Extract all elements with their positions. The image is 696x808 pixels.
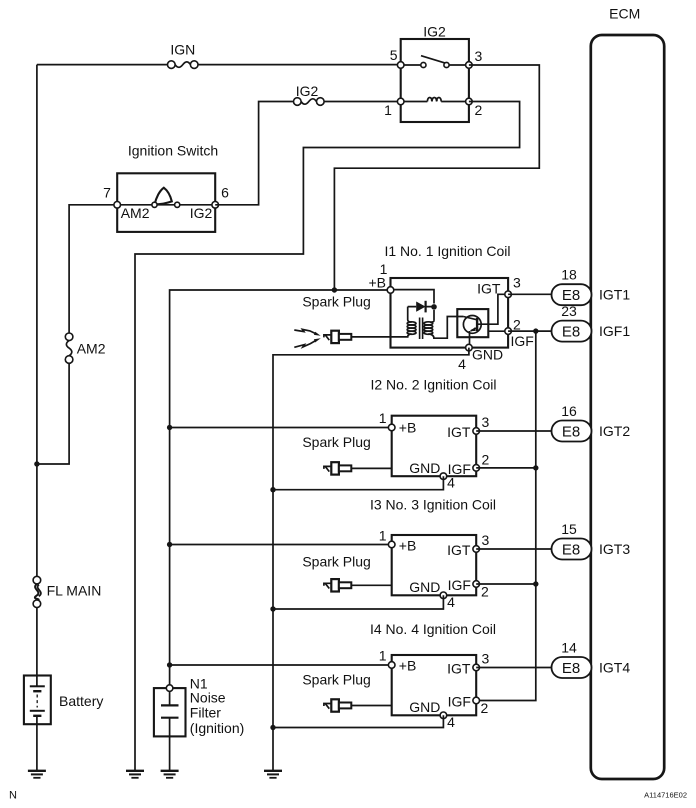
svg-text:IGT: IGT (477, 281, 501, 297)
coil1 pin labels (368, 261, 533, 372)
svg-text:IGN: IGN (170, 42, 195, 58)
node GND3 junction (270, 606, 275, 611)
wire IGT3 to ECM (476, 548, 551, 550)
svg-text:Ignition Switch: Ignition Switch (128, 143, 218, 159)
svg-text:+B: +B (399, 420, 417, 436)
wire IGT4 to ECM (476, 667, 551, 669)
svg-text:IG2: IG2 (296, 83, 319, 99)
wire GND2 (273, 476, 443, 490)
node GND2 junction (270, 487, 275, 492)
fuse IGN (168, 42, 199, 69)
connector E8 pin 23 IGF1 (552, 303, 631, 342)
svg-text:IGT: IGT (447, 661, 471, 677)
svg-text:IGF1: IGF1 (599, 323, 630, 339)
wire IGF1 to ECM (508, 330, 551, 332)
spark plug 1 (294, 294, 390, 348)
ignition coil I1 (384, 243, 510, 348)
node IGF2 junction (533, 465, 538, 470)
svg-text:23: 23 (561, 303, 577, 319)
diode D1 (408, 301, 432, 313)
svg-text:IG2: IG2 (423, 24, 446, 40)
svg-text:I2 No. 2 Ignition Coil: I2 No. 2 Ignition Coil (370, 377, 496, 393)
svg-text:IGT: IGT (447, 424, 471, 440)
svg-text:IGT4: IGT4 (599, 660, 630, 676)
spark plug 2 (302, 434, 391, 475)
svg-text:AM2: AM2 (121, 205, 150, 221)
svg-text:IGT: IGT (447, 542, 471, 558)
connector E8 pin 14 IGT4 (552, 639, 631, 678)
svg-text:IGT3: IGT3 (599, 541, 630, 557)
relay IG2 (384, 24, 482, 123)
ignition coil I2 (370, 377, 496, 491)
svg-text:I4 No. 4 Ignition Coil: I4 No. 4 Ignition Coil (370, 621, 496, 637)
wire GND3 (273, 595, 443, 609)
svg-text:IGF: IGF (448, 694, 471, 710)
svg-text:I1 No. 1 Ignition Coil: I1 No. 1 Ignition Coil (384, 243, 510, 259)
wire AM2 branch (37, 205, 117, 464)
svg-text:15: 15 (561, 521, 577, 537)
svg-text:+B: +B (399, 538, 417, 554)
svg-text:Filter: Filter (190, 705, 221, 721)
node battery/AM2 junction (34, 461, 39, 466)
ignition coil I3 (370, 497, 496, 610)
svg-text:3: 3 (482, 532, 490, 548)
spark plug 4 (302, 672, 391, 712)
ground battery (28, 771, 46, 778)
svg-text:FL MAIN: FL MAIN (47, 583, 102, 599)
wire left battery vertical (36, 65, 38, 676)
wire IGF2 (476, 467, 536, 469)
wire IGF common vertical (476, 331, 536, 700)
wire relay pin3 to +B rail (334, 65, 539, 290)
svg-text:1: 1 (384, 102, 392, 118)
svg-text:5: 5 (390, 47, 398, 63)
wire IGF3 (476, 583, 536, 585)
wire +B rail row3 (170, 544, 392, 546)
ignition switch SW (103, 143, 229, 232)
coil1 pin terminals (387, 287, 511, 351)
node rail row3 (167, 542, 172, 547)
battery (24, 676, 103, 725)
svg-text:3: 3 (482, 414, 490, 430)
svg-text:A114716E02: A114716E02 (644, 791, 687, 800)
svg-text:E8: E8 (562, 541, 580, 558)
svg-text:AM2: AM2 (77, 341, 106, 357)
ground relay coil (126, 771, 144, 778)
svg-text:4: 4 (458, 356, 466, 372)
svg-text:GND: GND (409, 460, 440, 476)
node GND4 junction (270, 725, 275, 730)
svg-text:6: 6 (221, 185, 229, 201)
svg-text:E8: E8 (562, 423, 580, 440)
transistor igniter Q1 (457, 294, 508, 347)
connector E8 pin 16 IGT2 (552, 403, 631, 442)
svg-text:GND: GND (409, 579, 440, 595)
wire IGT1 to ECM (508, 293, 551, 295)
ground noise filter (161, 771, 179, 778)
svg-text:1: 1 (379, 648, 387, 664)
svg-text:18: 18 (561, 267, 577, 283)
wire relay pin2 to ground (135, 102, 520, 771)
svg-text:+B: +B (399, 658, 417, 674)
svg-text:4: 4 (447, 714, 455, 730)
svg-text:16: 16 (561, 403, 577, 419)
svg-text:IGT1: IGT1 (599, 287, 630, 303)
transformer T1 (391, 307, 464, 339)
ECM box (591, 6, 664, 780)
svg-text:2: 2 (475, 102, 483, 118)
svg-text:3: 3 (513, 275, 521, 291)
svg-text:IG2: IG2 (190, 205, 213, 221)
svg-text:ECM: ECM (609, 6, 640, 22)
fuse IG2 (294, 83, 325, 105)
wire GND4 (273, 715, 443, 727)
wire +B rail row4 (170, 664, 392, 666)
node IGF3 junction (533, 581, 538, 586)
wire IGT2 to ECM (476, 430, 551, 432)
wire battery feed top (IGN line) (37, 64, 401, 66)
node rail row2 (167, 425, 172, 430)
svg-text:7: 7 (103, 185, 111, 201)
svg-text:2: 2 (481, 584, 489, 600)
wire switch pin6 to IG2 fuse to relay pin1 (215, 102, 401, 205)
noise filter N1 (154, 676, 244, 771)
node rail row4 (167, 662, 172, 667)
svg-text:Spark Plug: Spark Plug (302, 294, 370, 310)
fuse AM2 (65, 333, 105, 363)
wire +B distribution rail (170, 290, 391, 688)
wire battery to ground (36, 724, 38, 771)
connector E8 pin 15 IGT3 (552, 521, 631, 560)
svg-text:E8: E8 (562, 287, 580, 304)
svg-text:Spark Plug: Spark Plug (302, 434, 370, 450)
spark plug 3 (302, 554, 391, 592)
svg-text:Battery: Battery (59, 693, 103, 709)
svg-text:+B: +B (368, 275, 386, 291)
coil1 +B inner wire (391, 290, 435, 321)
svg-text:Noise: Noise (190, 690, 226, 706)
svg-text:3: 3 (475, 48, 483, 64)
ground coils (264, 771, 282, 778)
svg-text:14: 14 (561, 639, 577, 655)
svg-text:(Ignition): (Ignition) (190, 720, 244, 736)
svg-text:4: 4 (447, 594, 455, 610)
svg-text:IGF: IGF (448, 577, 471, 593)
svg-text:Spark Plug: Spark Plug (302, 672, 370, 688)
node +B rail row1 junction (332, 287, 337, 292)
connector E8 pin 18 IGT1 (552, 267, 631, 306)
svg-text:I3 No. 3 Ignition Coil: I3 No. 3 Ignition Coil (370, 497, 496, 513)
svg-text:E8: E8 (562, 660, 580, 677)
svg-text:Spark Plug: Spark Plug (302, 554, 370, 570)
svg-text:IGT2: IGT2 (599, 423, 630, 439)
node IGF1 junction (533, 328, 538, 333)
svg-text:1: 1 (379, 410, 387, 426)
ignition coil I4 (370, 621, 496, 730)
svg-text:GND: GND (409, 699, 440, 715)
node diode cathode junction (431, 304, 437, 310)
svg-text:GND: GND (472, 347, 503, 363)
svg-text:4: 4 (447, 475, 455, 491)
svg-text:N: N (9, 790, 17, 802)
svg-text:E8: E8 (562, 323, 580, 340)
svg-text:3: 3 (482, 651, 490, 667)
svg-text:2: 2 (482, 452, 490, 468)
svg-text:IGF: IGF (511, 333, 534, 349)
wire +B rail row2 (170, 427, 392, 429)
fuse FL MAIN (fusible link) (33, 576, 101, 607)
svg-text:1: 1 (379, 528, 387, 544)
svg-text:2: 2 (513, 317, 521, 333)
wire GND return vertical (273, 348, 469, 771)
svg-text:2: 2 (481, 700, 489, 716)
